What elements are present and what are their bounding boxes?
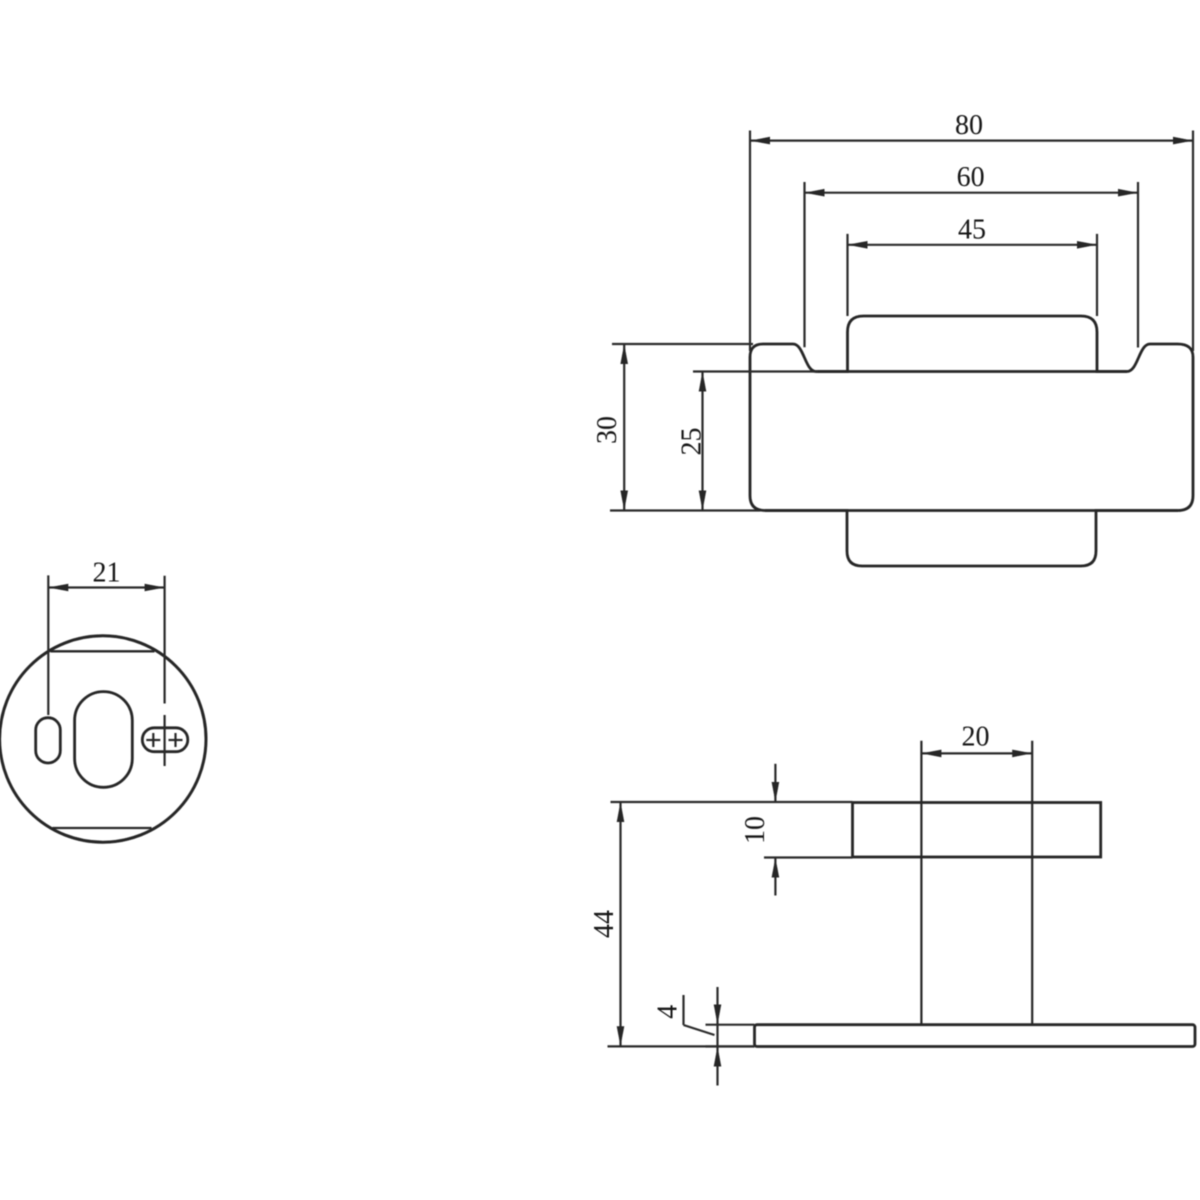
svg-text:21: 21 [93,558,121,589]
svg-text:80: 80 [955,110,983,141]
svg-text:4: 4 [653,1005,684,1019]
svg-text:30: 30 [592,416,623,444]
svg-text:44: 44 [589,910,620,938]
svg-text:25: 25 [677,428,708,456]
svg-text:20: 20 [962,722,990,753]
svg-text:45: 45 [958,214,986,245]
svg-text:10: 10 [740,816,771,844]
svg-text:60: 60 [957,162,985,193]
